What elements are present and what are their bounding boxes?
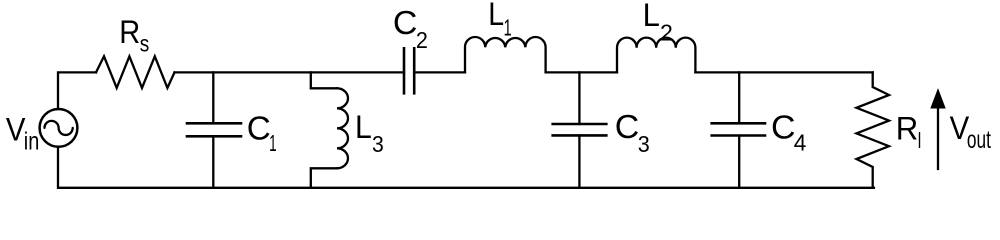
resistor Rs xyxy=(96,56,175,88)
label L3 xyxy=(355,109,384,157)
svg-text:2: 2 xyxy=(416,27,428,53)
inductor L1 xyxy=(465,37,546,72)
capacitor C3 xyxy=(553,72,607,187)
svg-text:in: in xyxy=(24,127,40,155)
svg-text:l: l xyxy=(918,128,922,153)
label Rl xyxy=(896,111,921,153)
svg-text:C: C xyxy=(247,109,271,146)
label L2 xyxy=(643,0,673,45)
capacitor C1 xyxy=(187,72,241,187)
svg-text:L: L xyxy=(643,0,660,33)
svg-text:L: L xyxy=(355,109,372,145)
wire bottom: source to Rl xyxy=(58,147,874,188)
svg-text:C: C xyxy=(615,108,640,145)
svg-text:4: 4 xyxy=(794,130,807,156)
inductor L2 xyxy=(617,38,695,73)
svg-text:C: C xyxy=(771,109,796,146)
wire top middle: Rs to C2 xyxy=(175,71,405,73)
svg-text:1: 1 xyxy=(269,130,277,156)
arrow Vout xyxy=(931,90,945,170)
svg-text:s: s xyxy=(140,31,150,57)
svg-text:out: out xyxy=(967,126,991,154)
svg-text:R: R xyxy=(119,14,140,50)
label Rs xyxy=(119,14,149,57)
label L1 xyxy=(488,0,511,41)
voltage source Vin xyxy=(40,109,78,147)
svg-text:V: V xyxy=(6,111,26,147)
svg-text:1: 1 xyxy=(504,15,512,41)
capacitor C2 xyxy=(404,48,414,93)
label C3 xyxy=(615,108,650,157)
wire L1 to L2 xyxy=(546,71,617,73)
svg-text:R: R xyxy=(896,111,919,147)
label C2 xyxy=(393,4,428,53)
label Vout xyxy=(950,110,991,154)
svg-text:2: 2 xyxy=(660,19,673,45)
label Vin xyxy=(6,111,39,155)
capacitor C4 xyxy=(712,72,765,187)
label C4 xyxy=(771,109,807,156)
wire C2 to L1 xyxy=(414,71,465,73)
svg-text:3: 3 xyxy=(372,131,384,157)
wire top-left: source to Rs xyxy=(58,72,96,109)
wire L2 to right corner xyxy=(695,71,872,73)
label C1 xyxy=(247,109,277,156)
svg-text:3: 3 xyxy=(638,131,650,157)
svg-text:L: L xyxy=(488,0,504,32)
inductor L3 xyxy=(311,72,348,187)
resistor Rl xyxy=(857,72,890,187)
svg-text:C: C xyxy=(393,4,418,41)
